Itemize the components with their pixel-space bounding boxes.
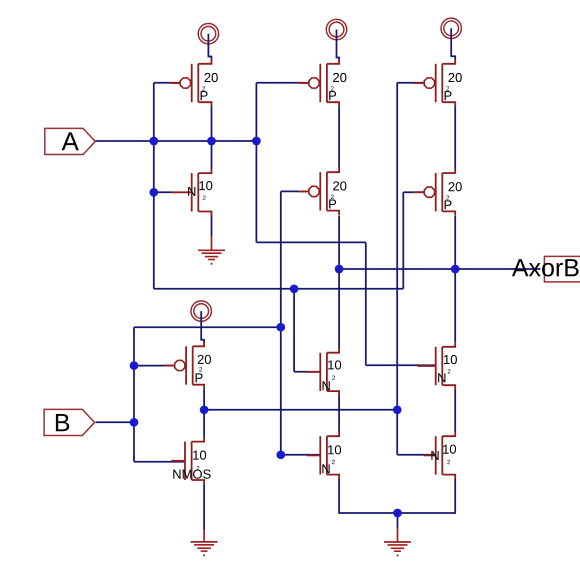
wire to P3 gate y=191 [281,190,308,192]
node A-3 [252,137,261,146]
node nB-2 [393,405,402,414]
node A-4 N1 gate [149,188,158,197]
ground G2 [191,529,218,556]
wire B vertical x=134 [133,327,135,462]
pmos P2 20/2 [299,59,347,106]
wire x=366 vertical [365,242,367,365]
wire nB horizontal y=410 [204,409,397,411]
wire to P5 gate y=192 [403,191,423,193]
nmos M1 10/2 [172,169,213,216]
wire B-P drain to B-N drain [203,389,205,437]
wire to N3 gate y=455 [281,454,321,456]
wire to N5 gate y=455 [397,454,435,456]
wire x=294 vertical [293,289,295,372]
wire B vertical x=281 [280,191,282,454]
wire B-N gate stub [134,461,185,463]
input port B [44,409,95,435]
power vdd V2 [326,19,346,60]
node A-1 [149,137,158,146]
wire B input horizontal [96,421,134,423]
wire A horizontal y=289 [154,288,403,290]
node B-4 N3 gate [276,450,285,459]
node A-5 [290,284,299,293]
pmos P1 20/2 [170,59,218,106]
node AxorB-1 [335,265,344,274]
wire P2 drain to P3 source [338,107,340,168]
power vdd V4 [191,301,211,343]
nmos M2 10/2 [307,348,341,395]
wire to N4 gate y=365 [366,364,436,366]
pmos P4 20/2 [414,59,462,106]
node gnd rail [393,509,402,518]
wire A vertical x=154 [153,83,155,289]
pmos P3 20/2 [299,168,347,215]
wire N1 source to gnd [211,215,213,237]
input port A [45,128,96,154]
wire A vertical x=256 [255,83,257,243]
wire A input horizontal [95,140,256,142]
wire to N2 gate y=372 [294,371,320,373]
wire P5 drain to N4 drain [454,216,456,342]
ground G3 [384,528,411,557]
pmos P6 (B inverter) 20/2 [164,342,211,389]
pmos P5 20/2 [414,169,462,216]
wire P1 gate stub [154,82,180,84]
node nB-1 inverter out [200,405,209,414]
wire P4 drain to P5 source [454,107,456,169]
node B-1 [276,323,285,332]
wire AxorB output y=269 [339,268,540,270]
wire P1 drain to N1 drain [211,107,213,170]
wire N1 gate stub [154,191,172,193]
power vdd V3 [441,18,461,59]
nmos M5 10/2 [424,432,457,479]
nmos M4 10/2 [418,342,457,389]
wire gnd rail stem [397,513,399,528]
power vdd V1 [198,24,218,60]
wire nB vertical x=397 [396,83,398,455]
ground G1 [198,236,225,265]
wire P3 drain to N2 drain [338,216,340,349]
wire to P4 gate y=83 [397,82,423,84]
wire N4 source to N5 drain [454,389,456,432]
nmos M6 (B inverter) NMOS 10/2 [171,437,210,484]
nmos M3 10/2 [307,432,341,479]
wire B horizontal y=327 [134,326,281,328]
wire to P2 gate y=83 [256,82,308,84]
node B-3 input [130,418,139,427]
wire x=403 vertical [402,192,404,289]
wire B-P gate stub [134,365,174,367]
wire y=242 [256,241,365,243]
wire B-N source to gnd [203,484,205,529]
wire N2 source to N3 drain [338,395,340,432]
node B-2 P6 gate [130,361,139,370]
wire N5 source to gnd rail [398,479,456,513]
node A-2 [207,137,216,146]
wire N3 source to gnd rail [339,479,397,513]
output port AxorB [512,256,580,282]
node AxorB-2 [451,265,460,274]
